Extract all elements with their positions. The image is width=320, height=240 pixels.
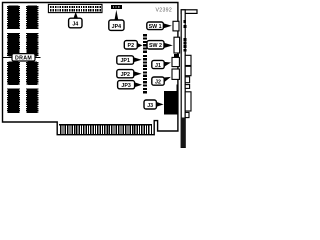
component below SW2 — [174, 54, 179, 57]
D-sub connector J3 (body) — [164, 91, 178, 115]
bracket lower solid section — [181, 118, 186, 148]
svg-text:JP3: JP3 — [121, 83, 130, 89]
label SW2 — [147, 41, 173, 49]
label JP1 — [117, 56, 142, 64]
jumper JP4 — [111, 5, 122, 9]
DIP switch SW1 — [173, 21, 179, 31]
DIP switch SW2 — [174, 37, 180, 53]
DRAM chip U7 — [26, 62, 39, 85]
connector J4 (feature connector) — [48, 4, 102, 12]
PCB outline — [3, 3, 178, 135]
RCA jack J2 — [172, 69, 179, 79]
DRAM label — [3, 54, 41, 62]
DRAM chip U4 — [7, 88, 20, 113]
DRAM chip U2 — [7, 33, 20, 57]
label SW1 — [147, 22, 172, 30]
small tab through bracket — [185, 85, 189, 89]
DRAM chip U1 — [7, 6, 20, 30]
label J4 — [69, 12, 82, 28]
DRAM chip U8 — [26, 88, 39, 113]
DRAM chip U5 — [26, 6, 39, 30]
RCA jack J1 — [172, 57, 179, 66]
small connector through bracket — [185, 77, 189, 83]
svg-text:DRAM: DRAM — [15, 56, 32, 62]
label J2 — [152, 77, 171, 86]
label J3 — [144, 100, 164, 109]
mounting bracket — [181, 10, 197, 148]
label JP2 — [117, 70, 142, 78]
D-sub shell J3 through bracket — [185, 92, 191, 111]
label JP3 — [118, 81, 142, 89]
SW1 switch nub through bracket — [183, 25, 186, 28]
pin header P2 — [143, 34, 147, 53]
SW2 switch nubs through bracket — [183, 38, 186, 52]
DRAM chip U6 — [26, 33, 39, 57]
bracket pin top — [183, 20, 186, 23]
label JP4 — [109, 10, 124, 31]
svg-text:V2392: V2392 — [156, 7, 173, 13]
pin header (JP1/JP2/JP3 block) — [143, 55, 147, 93]
label J1 — [152, 60, 171, 68]
svg-text:JP2: JP2 — [121, 72, 130, 78]
svg-text:J1: J1 — [155, 63, 161, 69]
svg-text:SW 2: SW 2 — [149, 43, 162, 49]
svg-text:J2: J2 — [155, 79, 161, 85]
label P2 — [124, 41, 142, 49]
svg-text:J3: J3 — [147, 103, 153, 109]
component below J2 — [176, 84, 178, 92]
svg-text:JP4: JP4 — [112, 24, 121, 30]
edge connector (gold fingers) — [59, 124, 152, 135]
J1 jack barrel through bracket — [185, 55, 191, 65]
small tab below D-sub — [185, 112, 189, 117]
svg-text:JP1: JP1 — [120, 58, 129, 64]
svg-text:P2: P2 — [128, 43, 135, 49]
J2 jack barrel through bracket — [185, 66, 191, 75]
svg-text:J4: J4 — [72, 21, 78, 27]
svg-text:SW 1: SW 1 — [149, 24, 162, 30]
DRAM chip U3 — [7, 62, 20, 85]
